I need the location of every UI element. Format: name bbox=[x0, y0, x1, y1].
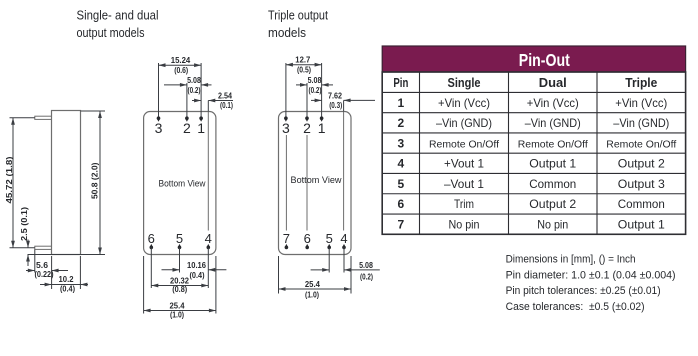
svg-text:2.5 (0.1): 2.5 (0.1) bbox=[20, 207, 29, 241]
svg-text:(0.8): (0.8) bbox=[172, 285, 187, 294]
svg-text:No pin: No pin bbox=[449, 217, 480, 231]
svg-text:4: 4 bbox=[340, 231, 347, 246]
svg-text:5: 5 bbox=[326, 231, 333, 246]
svg-text:Output 3: Output 3 bbox=[618, 177, 665, 191]
dim 25.4 (1.0) case width triple bbox=[279, 256, 352, 299]
table header band bbox=[382, 46, 685, 72]
dim 15.24 (0.6) top pin span single/dual bbox=[159, 56, 202, 75]
svg-text:Triple output: Triple output bbox=[268, 8, 328, 23]
dim 20.32 (0.8) pins 6-4 single/dual bbox=[151, 277, 208, 295]
table grid bbox=[382, 72, 685, 234]
table row pin 7 bbox=[398, 217, 666, 231]
svg-text:5.08: 5.08 bbox=[359, 261, 373, 270]
svg-text:Single: Single bbox=[448, 76, 481, 90]
table row pin 4 bbox=[398, 157, 666, 171]
triple pin 3 bbox=[282, 63, 290, 231]
svg-text:Pin pitch tolerances: ±0.25 (±: Pin pitch tolerances: ±0.25 (±0.01) bbox=[506, 285, 661, 297]
svg-text:25.4: 25.4 bbox=[305, 280, 321, 289]
table row pin 6 bbox=[398, 197, 665, 211]
svg-text:models: models bbox=[268, 25, 306, 40]
dim 10.2 (0.4) case depth bbox=[40, 256, 88, 294]
svg-text:Trim: Trim bbox=[454, 197, 474, 211]
svg-text:Triple: Triple bbox=[625, 76, 657, 90]
svg-text:(0.4): (0.4) bbox=[60, 285, 75, 294]
svg-text:(1.0): (1.0) bbox=[305, 290, 319, 299]
dim 5.08 (0.2) pins 5-4 triple bbox=[311, 261, 380, 281]
single/dual pin 2 bbox=[183, 83, 191, 136]
svg-text:(0.1): (0.1) bbox=[220, 101, 233, 110]
svg-text:(1.0): (1.0) bbox=[170, 311, 184, 320]
svg-text:10.16: 10.16 bbox=[187, 261, 207, 270]
side view bottom pin bbox=[35, 246, 52, 249]
svg-text:10.2: 10.2 bbox=[59, 275, 75, 284]
svg-text:(0.2): (0.2) bbox=[360, 272, 373, 281]
svg-text:(0.3): (0.3) bbox=[329, 101, 342, 110]
svg-text:(0.4): (0.4) bbox=[190, 271, 205, 280]
svg-text:+Vin (Vcc): +Vin (Vcc) bbox=[438, 96, 490, 110]
svg-text:2: 2 bbox=[303, 120, 311, 136]
svg-text:Common: Common bbox=[529, 177, 576, 191]
triple pin 5 bbox=[326, 231, 333, 273]
svg-text:Bottom View: Bottom View bbox=[291, 175, 342, 186]
single/dual pin 5 bbox=[176, 231, 183, 273]
single/dual pin 4 bbox=[205, 231, 212, 288]
svg-text:5.6: 5.6 bbox=[36, 261, 49, 270]
dim 5.08 (0.2) pin 2 to 1 triple bbox=[296, 76, 333, 95]
svg-text:Output 1: Output 1 bbox=[618, 217, 665, 231]
svg-text:Dimensions in [mm], () = Inch: Dimensions in [mm], () = Inch bbox=[506, 254, 636, 266]
svg-text:3: 3 bbox=[282, 120, 290, 136]
svg-text:5.08: 5.08 bbox=[187, 76, 201, 85]
table row pin 2 bbox=[398, 116, 670, 130]
svg-text:50.8 (2.0): 50.8 (2.0) bbox=[91, 162, 100, 199]
dim 7.62 (0.3) pin 1 to case edge triple bbox=[311, 91, 375, 111]
svg-text:4: 4 bbox=[398, 157, 405, 171]
svg-text:No pin: No pin bbox=[537, 217, 568, 231]
svg-text:Output 2: Output 2 bbox=[529, 197, 576, 211]
table row pin 5 bbox=[398, 177, 666, 191]
svg-text:Bottom View: Bottom View bbox=[159, 178, 206, 189]
svg-text:1: 1 bbox=[318, 120, 326, 136]
svg-text:6: 6 bbox=[304, 231, 311, 246]
svg-text:(0.2): (0.2) bbox=[309, 86, 322, 95]
table column headers bbox=[393, 76, 657, 90]
triple pin 1 bbox=[318, 63, 326, 136]
svg-text:1: 1 bbox=[398, 96, 405, 110]
single/dual case inner edge line bbox=[207, 112, 209, 231]
triple pin 7 bbox=[283, 231, 290, 249]
svg-text:+Vout 1: +Vout 1 bbox=[444, 157, 484, 171]
svg-text:Pin: Pin bbox=[393, 76, 408, 90]
table row pin 3 bbox=[398, 136, 677, 150]
svg-text:output models: output models bbox=[77, 25, 145, 40]
svg-text:Remote On/Off: Remote On/Off bbox=[606, 139, 676, 150]
single/dual body (bottom view) bbox=[144, 112, 216, 255]
svg-text:Single- and dual: Single- and dual bbox=[77, 8, 159, 23]
triple pin 2 bbox=[303, 83, 311, 231]
svg-text:3: 3 bbox=[155, 120, 163, 136]
heading: single and dual output models bbox=[77, 8, 159, 40]
dim 5.08 (0.2) pin 2 to 1 single/dual bbox=[164, 76, 212, 95]
svg-text:Common: Common bbox=[618, 197, 665, 211]
heading: triple output models bbox=[268, 8, 328, 40]
svg-text:–Vout 1: –Vout 1 bbox=[444, 177, 484, 191]
dim 50.8 (2.0) case height bbox=[28, 111, 106, 255]
triple case inner edge line right bbox=[343, 112, 345, 231]
dim 25.4 (1.0) case width single/dual bbox=[144, 256, 216, 320]
side view body bbox=[52, 111, 81, 255]
svg-text:6: 6 bbox=[148, 231, 155, 246]
svg-text:7.62: 7.62 bbox=[328, 91, 342, 100]
dim 2.54 (0.1) pin 1 to case edge single/dual bbox=[192, 92, 233, 112]
svg-text:(0.5): (0.5) bbox=[297, 66, 311, 75]
svg-text:Case tolerances: ±0.5 (±0.02): Case tolerances: ±0.5 (±0.02) bbox=[506, 301, 645, 313]
single/dual pin 3 bbox=[155, 63, 163, 136]
svg-text:(0.2): (0.2) bbox=[188, 86, 201, 95]
svg-text:2: 2 bbox=[398, 116, 405, 130]
svg-text:+Vin (Vcc): +Vin (Vcc) bbox=[527, 96, 579, 110]
triple pin 6 bbox=[304, 231, 311, 249]
svg-text:–Vin (GND): –Vin (GND) bbox=[525, 116, 581, 130]
svg-text:4: 4 bbox=[205, 231, 212, 246]
svg-text:5: 5 bbox=[398, 177, 405, 191]
svg-text:Pin diameter: 1.0 ±0.1 (0.04 ±: Pin diameter: 1.0 ±0.1 (0.04 ±0.004) bbox=[506, 269, 676, 281]
svg-text:25.4: 25.4 bbox=[170, 302, 186, 311]
svg-text:15.24: 15.24 bbox=[171, 56, 191, 65]
svg-text:5: 5 bbox=[176, 231, 183, 246]
svg-text:6: 6 bbox=[398, 197, 405, 211]
svg-text:–Vin (GND): –Vin (GND) bbox=[613, 116, 669, 130]
svg-text:45.72 (1.8): 45.72 (1.8) bbox=[5, 156, 14, 203]
single/dual pin 1 bbox=[197, 63, 205, 136]
svg-text:+Vin (Vcc): +Vin (Vcc) bbox=[615, 96, 667, 110]
svg-text:(0.22): (0.22) bbox=[35, 270, 54, 279]
svg-text:Output 1: Output 1 bbox=[529, 157, 576, 171]
svg-text:Remote On/Off: Remote On/Off bbox=[429, 139, 499, 150]
dim 5.6 (0.22) pin length bbox=[26, 250, 68, 290]
svg-text:Dual: Dual bbox=[539, 76, 567, 90]
dim 12.7 (0.5) top pin span triple bbox=[286, 56, 322, 75]
side view top pin bbox=[35, 116, 52, 119]
svg-text:2.54: 2.54 bbox=[218, 92, 232, 101]
svg-text:Pin-Out: Pin-Out bbox=[519, 50, 570, 70]
svg-text:1: 1 bbox=[197, 120, 205, 136]
table row pin 1 bbox=[398, 96, 668, 110]
triple body (bottom view) bbox=[279, 112, 352, 255]
svg-text:Remote On/Off: Remote On/Off bbox=[518, 139, 588, 150]
dim 45.72 (1.8) pin-to-pin height bbox=[5, 118, 35, 248]
triple pin 4 bbox=[340, 231, 347, 273]
svg-text:2: 2 bbox=[183, 120, 191, 136]
svg-text:(0.6): (0.6) bbox=[174, 66, 188, 75]
svg-text:Output 2: Output 2 bbox=[618, 157, 665, 171]
svg-text:7: 7 bbox=[398, 217, 405, 231]
single/dual pin 6 bbox=[148, 231, 155, 288]
svg-text:7: 7 bbox=[283, 231, 290, 246]
svg-text:3: 3 bbox=[398, 136, 405, 150]
svg-text:20.32: 20.32 bbox=[170, 277, 190, 286]
svg-text:5.08: 5.08 bbox=[308, 76, 322, 85]
svg-text:–Vin (GND): –Vin (GND) bbox=[436, 116, 492, 130]
dim 2.5 (0.1) pin offset bbox=[20, 207, 30, 266]
svg-text:12.7: 12.7 bbox=[295, 56, 311, 65]
dim 10.16 (0.4) pins 5-4 single/dual bbox=[162, 261, 227, 280]
